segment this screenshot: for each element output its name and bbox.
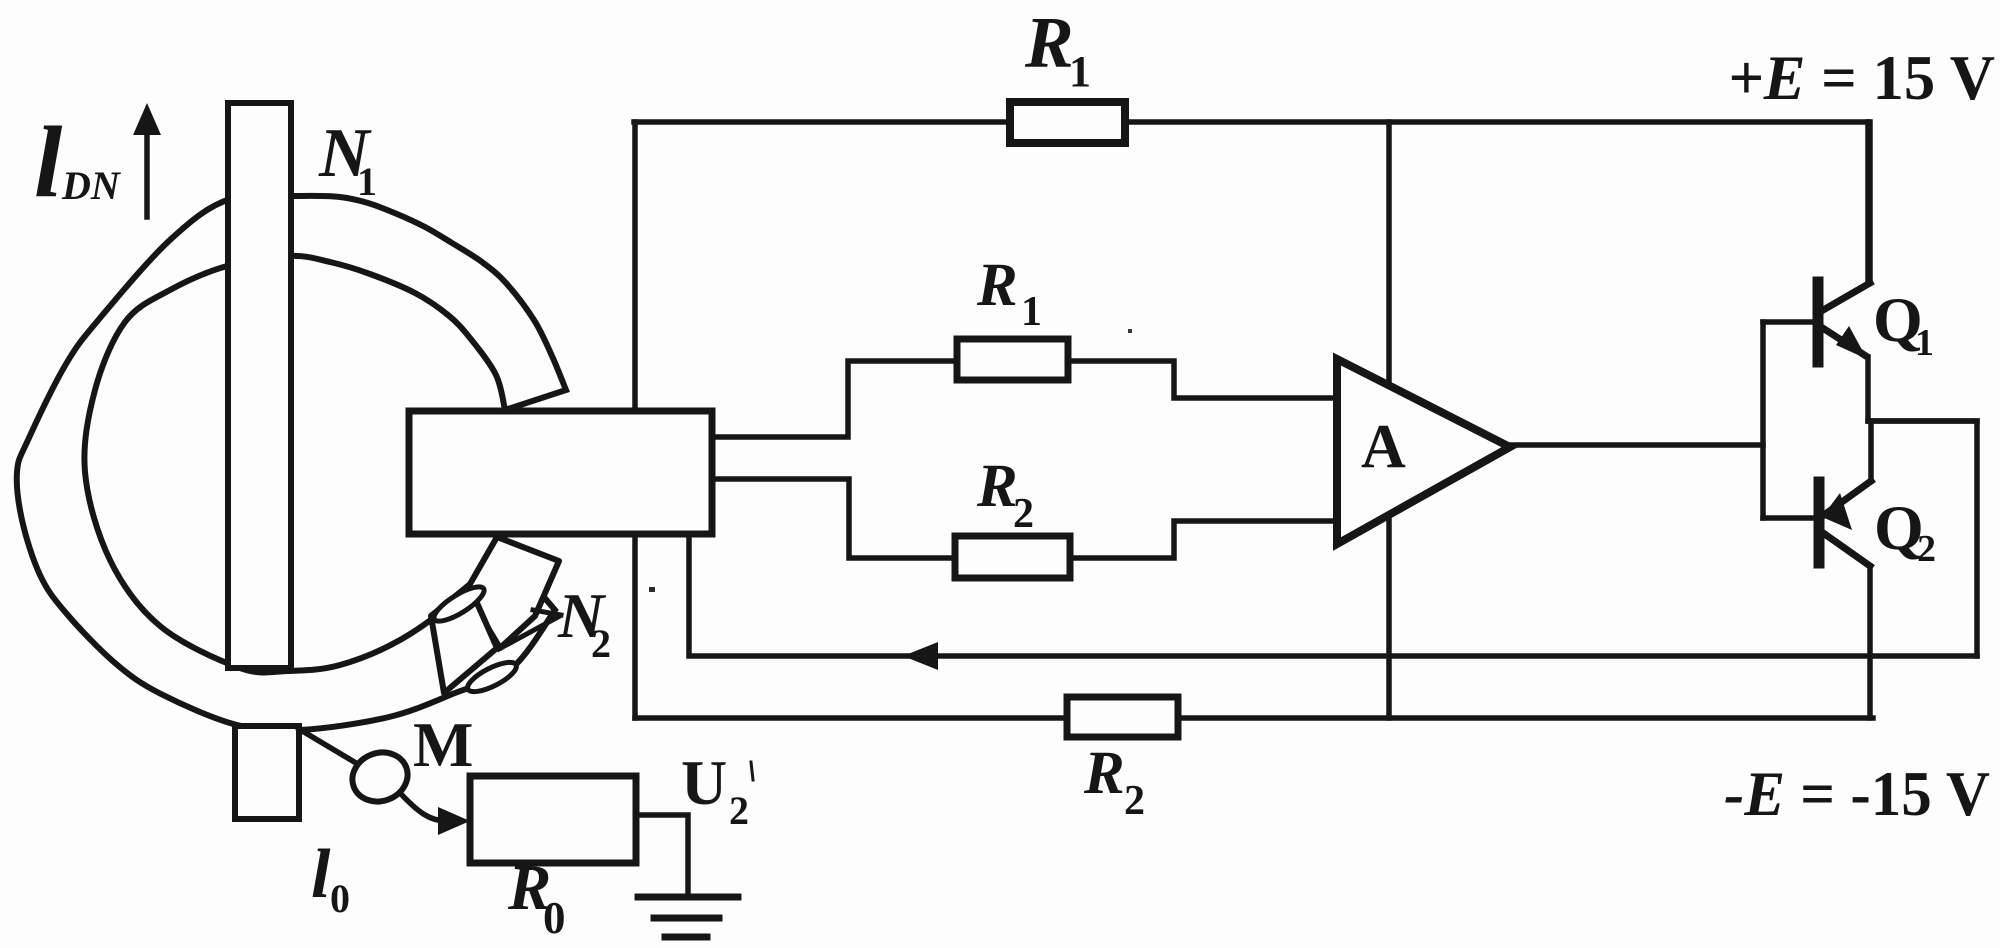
wire left vertical lower: [632, 532, 638, 718]
svg-text:l: l: [34, 106, 63, 219]
resistor R2 (amp input lower): [955, 536, 1070, 578]
svg-text:1: 1: [357, 159, 377, 204]
svg-text:2: 2: [1124, 778, 1145, 824]
op-amp A: [1337, 359, 1510, 544]
winding N2 loop end lower: [464, 657, 520, 698]
svg-text:R: R: [976, 252, 1018, 319]
resistor R1 (top feedback): [1010, 102, 1125, 143]
svg-text:l: l: [311, 836, 331, 913]
wire feedback from block bottom: [689, 532, 1977, 656]
tick artifact after U2: [751, 762, 753, 780]
wire R0 to ground: [636, 815, 688, 894]
arrow current direction l_DN: [144, 130, 150, 217]
winding N2 turn 1: [466, 537, 559, 648]
svg-text:M: M: [413, 709, 473, 780]
wire M to R0 with arrow: [401, 794, 446, 821]
svg-text:-E = -15 V: -E = -15 V: [1724, 758, 1990, 829]
wire amp output: [1505, 442, 1763, 448]
wire Q1/Q2 emitter junction: [1868, 418, 1977, 424]
wire hall output upper to R1: [712, 361, 1337, 437]
resistor R1 (amp input upper): [957, 339, 1068, 380]
ground: [638, 897, 738, 937]
svg-text:1: 1: [1069, 47, 1091, 96]
svg-text:1: 1: [1915, 322, 1934, 364]
conductor bar lower stub: [235, 726, 299, 819]
svg-text:2: 2: [1917, 528, 1936, 570]
resistor R0: [470, 776, 636, 863]
wire left vertical upper: [632, 122, 638, 413]
wire Q2 base lead: [1763, 515, 1816, 521]
wire core to pickup loop M: [299, 729, 356, 763]
wire base bus vertical: [1760, 322, 1766, 518]
wire emitter junction right: [1869, 421, 1977, 656]
svg-text:A: A: [1361, 413, 1406, 481]
speck artifact: [649, 587, 655, 592]
wire hall output lower to R2: [712, 479, 1337, 558]
toroid core N1 ring: [17, 195, 566, 731]
transistor Q2: [1819, 421, 1871, 718]
speck artifact 2: [1128, 329, 1132, 333]
transistor Q1: [1818, 122, 1870, 421]
hall element block: [409, 411, 712, 534]
svg-text:2: 2: [1013, 491, 1034, 537]
svg-text:DN: DN: [61, 163, 122, 208]
wire mid vertical (rail to rail): [1386, 122, 1392, 718]
wire pointer to N2 label upper: [533, 610, 561, 615]
svg-text:2: 2: [729, 788, 749, 833]
node arrow on feedback wire: [903, 642, 938, 670]
wire pointer to N2 label: [499, 617, 558, 649]
svg-text:0: 0: [543, 893, 566, 943]
svg-text:+E = 15 V: +E = 15 V: [1728, 42, 1995, 113]
wire top rail +E: [634, 119, 1868, 125]
conductor bar through core: [228, 103, 291, 668]
svg-text:2: 2: [591, 621, 611, 666]
winding N2 turn 2: [431, 585, 497, 693]
wire Q1 base lead: [1763, 319, 1815, 325]
svg-text:R: R: [1083, 740, 1125, 807]
svg-text:R: R: [976, 453, 1018, 520]
winding N2 loop end upper: [430, 581, 489, 627]
pickup loop M: [345, 745, 414, 809]
wire bottom rail: [635, 715, 1873, 721]
wire right rail down to Q1 collector: [1865, 122, 1871, 281]
svg-text:0: 0: [330, 876, 350, 921]
svg-text:1: 1: [1021, 289, 1042, 335]
resistor R2 (bottom rail): [1067, 697, 1178, 737]
svg-text:R: R: [1024, 2, 1074, 83]
svg-text:U: U: [681, 747, 727, 818]
